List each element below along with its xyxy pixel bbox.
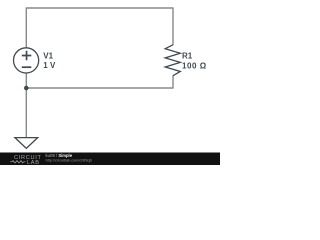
voltage source V1 circle (14, 48, 39, 73)
V1 minus sign (22, 66, 32, 68)
wire bottom horizontal (26, 87, 173, 89)
ground symbol (15, 138, 38, 149)
svg-text:1 V: 1 V (43, 61, 56, 70)
svg-text:100 Ω: 100 Ω (182, 61, 207, 70)
svg-text:R1: R1 (182, 52, 193, 61)
wire right vertical (top corner to R1 top) (172, 7, 174, 45)
wire top horizontal (26, 7, 173, 9)
wire V1 bottom to ground (25, 73, 27, 137)
svg-text:LAB: LAB (27, 160, 40, 165)
watermark logo resistor glyph (10, 161, 26, 163)
svg-text:kurt9 / Simple: kurt9 / Simple (46, 153, 73, 158)
wire R1 bottom lead (172, 76, 174, 89)
resistor R1 zigzag (165, 45, 180, 76)
wire left vertical (top corner to V1 top) (25, 7, 27, 47)
svg-text:http://circuitlab.com/c/9f3q6: http://circuitlab.com/c/9f3q6 (46, 159, 92, 163)
junction node dot (24, 86, 29, 91)
V1 plus sign (22, 51, 32, 61)
watermark bar (0, 153, 220, 166)
svg-text:V1: V1 (43, 51, 53, 60)
